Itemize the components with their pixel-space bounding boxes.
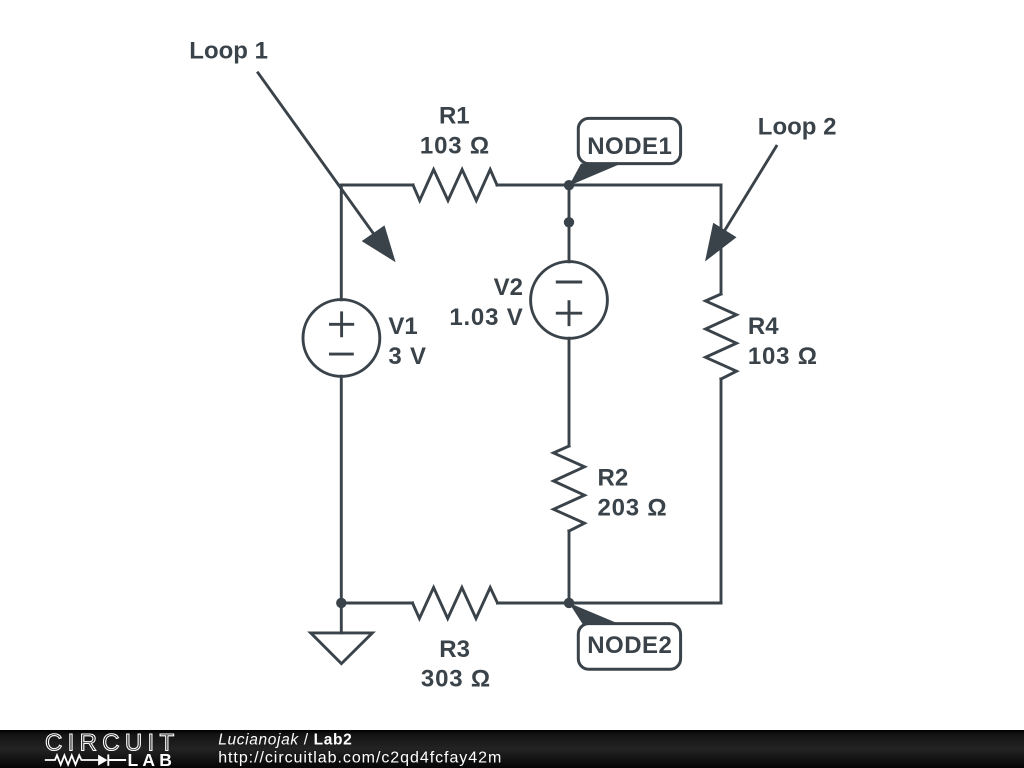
annotation Loop 2 arrowhead bbox=[705, 223, 737, 262]
svg-text:R3: R3 bbox=[439, 636, 470, 663]
node NODE2 callout box bbox=[578, 624, 680, 670]
svg-text:R2: R2 bbox=[598, 465, 629, 492]
svg-text:NODE1: NODE1 bbox=[587, 133, 672, 160]
footer logo resistor zigzag bbox=[45, 755, 98, 764]
svg-text:203 Ω: 203 Ω bbox=[598, 495, 668, 522]
node NODE1 callout box bbox=[578, 118, 680, 163]
wire left vertical lower (V1 to bottom corner) bbox=[340, 376, 343, 603]
resistor R1 zigzag bbox=[413, 170, 497, 201]
svg-text:3 V: 3 V bbox=[388, 343, 426, 370]
ground symbol triangle bbox=[311, 633, 373, 664]
wire left vertical upper (corner to V1) bbox=[340, 185, 343, 300]
svg-text:http://circuitlab.com/c2qd4fcf: http://circuitlab.com/c2qd4fcfay42m bbox=[218, 750, 502, 767]
svg-text:303 Ω: 303 Ω bbox=[421, 666, 491, 693]
node NODE1 callout tail bbox=[569, 164, 621, 186]
svg-text:R4: R4 bbox=[748, 313, 779, 340]
wire bottom-left horizontal (ground node to R3) bbox=[341, 602, 412, 605]
V2 minus sign bbox=[556, 281, 582, 284]
svg-text:Loop 1: Loop 1 bbox=[189, 37, 268, 64]
wire right vertical lower (R4 to bottom corner) bbox=[720, 379, 723, 603]
wire middle vertical (V2 to R2) bbox=[568, 338, 571, 446]
svg-text:103 Ω: 103 Ω bbox=[748, 343, 818, 370]
svg-text:R1: R1 bbox=[439, 103, 470, 130]
svg-text:V2: V2 bbox=[494, 274, 523, 301]
V1 plus sign bbox=[329, 311, 354, 337]
wire bottom-right horizontal (R3 to right corner) bbox=[498, 602, 722, 605]
wire middle vertical upper (node1 to V2) bbox=[568, 185, 571, 262]
resistor R2 zigzag bbox=[554, 446, 585, 531]
resistor R3 zigzag bbox=[413, 588, 498, 619]
junction dot at ground node bbox=[336, 598, 346, 608]
voltage source V2 circle bbox=[531, 262, 608, 339]
svg-text:V1: V1 bbox=[388, 313, 417, 340]
junction dot node NODE2 on bottom wire bbox=[564, 598, 574, 608]
wire middle vertical lower (R2 to node2) bbox=[568, 531, 571, 603]
svg-text:LAB: LAB bbox=[128, 750, 177, 768]
annotation Loop 2 arrow line bbox=[724, 145, 777, 231]
svg-text:Loop 2: Loop 2 bbox=[758, 113, 837, 140]
svg-text:Lucianojak / Lab2: Lucianojak / Lab2 bbox=[218, 732, 352, 749]
wire top-right horizontal (R1 to right corner) bbox=[497, 184, 721, 187]
junction dot on middle branch below NODE1 bbox=[564, 217, 574, 227]
footer bar bbox=[0, 730, 1024, 768]
wire top-left horizontal (corner to R1) bbox=[341, 184, 413, 187]
node NODE2 callout tail bbox=[569, 603, 621, 625]
svg-text:NODE2: NODE2 bbox=[587, 632, 672, 659]
svg-text:1.03 V: 1.03 V bbox=[449, 304, 523, 331]
svg-text:103 Ω: 103 Ω bbox=[420, 133, 490, 160]
annotation Loop 1 arrowhead bbox=[362, 225, 396, 262]
footer logo diode symbol bbox=[98, 755, 107, 766]
V1 minus sign bbox=[329, 353, 354, 356]
V2 plus sign bbox=[556, 300, 582, 326]
junction dot node A (NODE1 at top wire) bbox=[564, 180, 574, 190]
resistor R4 zigzag bbox=[706, 294, 737, 379]
wire right vertical upper (corner to R4) bbox=[720, 185, 723, 294]
ground stub wire bbox=[340, 603, 343, 633]
voltage source V1 circle bbox=[303, 300, 380, 377]
annotation Loop 1 arrow line bbox=[257, 72, 374, 235]
